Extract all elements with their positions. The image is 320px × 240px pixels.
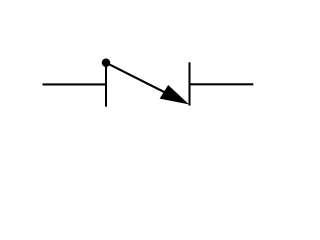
wire right terminal: [190, 83, 254, 85]
wire left terminal: [43, 83, 108, 85]
arrowhead: [160, 85, 189, 104]
contact bar right: [189, 62, 191, 105]
node junction dot: [102, 59, 111, 68]
contact bar left: [105, 62, 107, 107]
wire diagonal actuator: [106, 63, 175, 98]
